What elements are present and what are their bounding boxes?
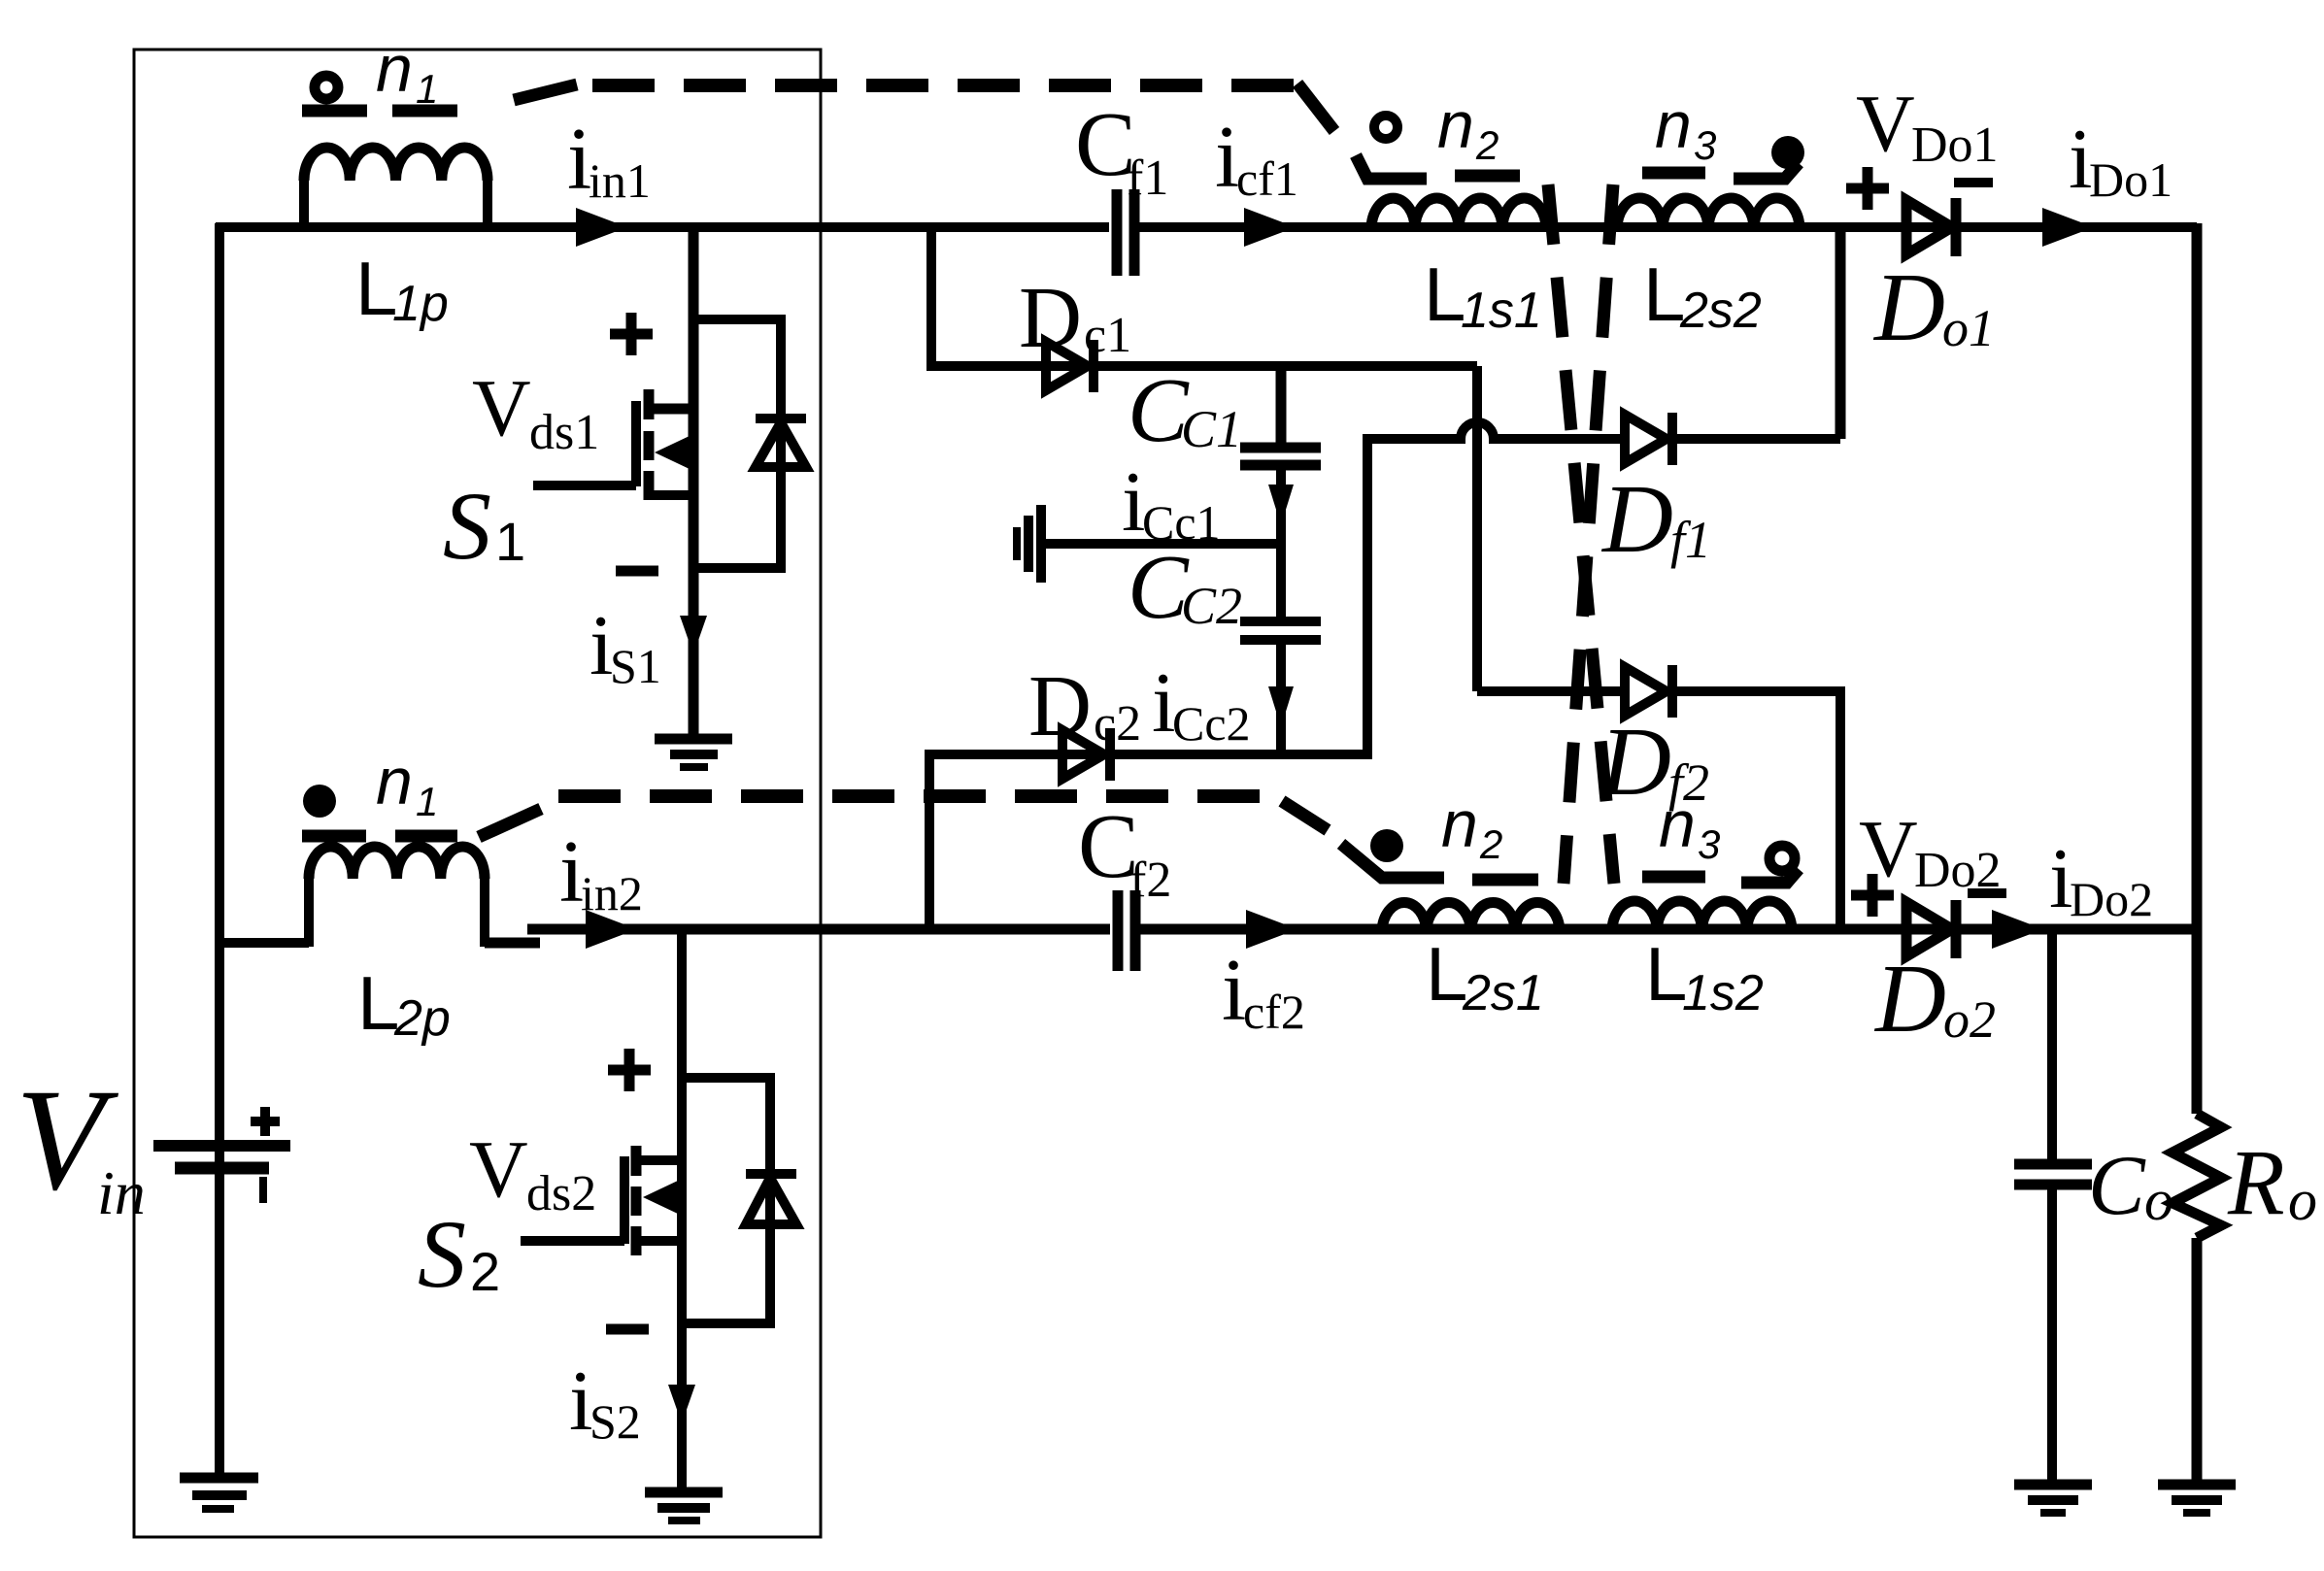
svg-text:Do1: Do1 bbox=[2089, 152, 2172, 207]
wire: rail to L2p left terminal bbox=[219, 938, 309, 948]
wire: Df1 cathode to return vertical bbox=[1672, 434, 1840, 444]
current arrow i_Cc1 bbox=[1268, 485, 1294, 525]
dashed polarity lead n2 bottom bbox=[1341, 844, 1538, 880]
label Cf2 bbox=[1078, 796, 1171, 908]
label n3 bottom bbox=[1659, 787, 1720, 867]
label Df2 bbox=[1599, 707, 1709, 816]
svg-text:S: S bbox=[443, 472, 491, 580]
dashed polarity lead n3 top with filled dot bbox=[1642, 136, 1804, 179]
label CC2 bbox=[1128, 537, 1242, 638]
dashed coupling line bottom (to n2 bottom) bbox=[558, 796, 1328, 830]
label i_Do2 bbox=[2049, 832, 2153, 926]
label i_cf2 bbox=[1222, 941, 1305, 1039]
label n1 bottom bbox=[376, 745, 438, 824]
diode Dc1 bbox=[1046, 340, 1094, 392]
current arrow i_Cc2 bbox=[1268, 686, 1294, 727]
svg-text:V: V bbox=[1856, 79, 1915, 169]
svg-text:c1: c1 bbox=[1084, 308, 1131, 363]
svg-text:C1: C1 bbox=[1181, 400, 1242, 458]
svg-text:1: 1 bbox=[495, 511, 525, 572]
capacitor Cf2 bbox=[1118, 890, 1135, 971]
svg-text:Cc2: Cc2 bbox=[1172, 696, 1251, 751]
label Df1 bbox=[1600, 464, 1711, 573]
svg-text:2s1: 2s1 bbox=[1462, 965, 1544, 1021]
capacitor CC1 bbox=[1240, 448, 1321, 465]
label CC1 bbox=[1128, 360, 1242, 461]
input cell boundary box bbox=[134, 50, 821, 1537]
label Dc2 bbox=[1028, 658, 1141, 754]
svg-text:1: 1 bbox=[416, 779, 438, 824]
wire: Df2 anode wire bbox=[1477, 686, 1625, 696]
svg-text:ds1: ds1 bbox=[529, 405, 599, 460]
svg-text:L: L bbox=[1424, 251, 1465, 337]
label S2 bbox=[418, 1200, 500, 1308]
dashed polarity line n1 top bbox=[302, 84, 577, 111]
label n2 top bbox=[1437, 88, 1499, 168]
label Dc1 bbox=[1019, 270, 1131, 366]
winding dot n1 bottom (filled) bbox=[303, 785, 336, 818]
inductor L2s1 bbox=[1382, 902, 1560, 931]
svg-text:2s2: 2s2 bbox=[1679, 283, 1762, 339]
ground at Ro bbox=[2158, 1485, 2236, 1513]
svg-text:L: L bbox=[357, 960, 399, 1046]
label V_Do1 bbox=[1856, 79, 1999, 173]
label Cf1 bbox=[1075, 94, 1168, 206]
svg-text:n: n bbox=[376, 745, 413, 819]
diode Dc2 bbox=[1062, 728, 1110, 781]
svg-text:L: L bbox=[1426, 931, 1467, 1017]
wire: Dc1 corner down to Df2 wire bbox=[1472, 366, 1482, 691]
label L1s2 bbox=[1645, 931, 1764, 1021]
current arrow i_cf2 bbox=[1246, 910, 1297, 949]
winding dot n2 bottom (filled) bbox=[1370, 829, 1403, 862]
label L1p bbox=[355, 246, 449, 332]
svg-text:n: n bbox=[376, 32, 413, 106]
plus sign Vds2 bbox=[608, 1049, 651, 1091]
body diode of S1 bbox=[693, 319, 806, 568]
svg-text:in: in bbox=[97, 1158, 146, 1227]
svg-text:o: o bbox=[2288, 1168, 2317, 1232]
ground at S2 source bbox=[645, 1492, 723, 1521]
wire: L2p to main bottom wire bbox=[485, 938, 540, 949]
svg-text:o: o bbox=[2144, 1168, 2173, 1232]
transformer core dashed line B bbox=[1564, 184, 1613, 884]
svg-text:L: L bbox=[355, 246, 397, 331]
label Vds1 bbox=[472, 363, 599, 460]
wire: right output rail bbox=[2192, 223, 2203, 1114]
label i_cf1 bbox=[1215, 108, 1298, 206]
svg-text:R: R bbox=[2227, 1130, 2285, 1234]
svg-text:S: S bbox=[418, 1200, 466, 1308]
dashed polarity lead n2 top bbox=[1356, 155, 1520, 179]
winding dot n3 bottom (open circle) bbox=[1769, 846, 1795, 871]
dashed polarity line n1 bottom bbox=[302, 809, 541, 837]
svg-text:cf2: cf2 bbox=[1243, 985, 1305, 1039]
label i_S1 bbox=[589, 599, 661, 693]
capacitor Cf1 bbox=[1117, 189, 1134, 276]
capacitor Co bbox=[2014, 1164, 2092, 1185]
inductor L2p bbox=[309, 847, 485, 947]
label L1s1 bbox=[1424, 251, 1542, 339]
minus sign V_Do1 bbox=[1954, 178, 1993, 187]
resistor Ro bbox=[2172, 1114, 2221, 1238]
minus sign Vds2 bbox=[606, 1324, 649, 1335]
inductor L1s1 bbox=[1371, 198, 1546, 229]
MOSFET S1 bbox=[533, 227, 693, 734]
wire: top main wire left of Cf1 bbox=[216, 222, 1109, 232]
svg-text:n: n bbox=[1437, 88, 1474, 162]
wire: top main wire right of Cf1 to output corner bbox=[1135, 222, 2197, 232]
svg-text:C: C bbox=[2088, 1139, 2146, 1233]
svg-text:L: L bbox=[1645, 931, 1687, 1017]
dashed polarity lead n3 bottom bbox=[1642, 869, 1799, 883]
inductor L1p bbox=[304, 148, 488, 231]
svg-text:S2: S2 bbox=[589, 1394, 641, 1449]
wire: Df1 return vertical to top wire bbox=[1836, 227, 1846, 439]
plus sign V_Do1 bbox=[1846, 167, 1889, 210]
current arrow i_Do1 bbox=[2042, 208, 2094, 247]
MOSFET S2 bbox=[521, 929, 682, 1487]
transformer core dashed line A bbox=[1548, 184, 1614, 884]
svg-text:2p: 2p bbox=[393, 990, 451, 1047]
label L2s1 bbox=[1426, 931, 1544, 1021]
svg-text:C2: C2 bbox=[1181, 577, 1242, 635]
wire: branch from top wire down to Dc1 bbox=[931, 227, 1477, 366]
label L2s2 bbox=[1643, 251, 1762, 339]
diode Df2 bbox=[1625, 665, 1672, 718]
plus sign Vds1 bbox=[610, 313, 653, 355]
inductor L2s2 bbox=[1617, 198, 1800, 229]
svg-text:n: n bbox=[1659, 787, 1696, 861]
label i_S2 bbox=[569, 1354, 641, 1449]
svg-text:D: D bbox=[1873, 944, 1946, 1053]
wire: bottom main wire right of Cf2 bbox=[1135, 924, 2197, 935]
capacitor CC2 bbox=[1240, 621, 1321, 640]
label n2 bottom bbox=[1441, 787, 1502, 867]
minus sign V_Do2 bbox=[1968, 888, 2006, 898]
label Do1 bbox=[1872, 252, 1995, 361]
body diode of S2 bbox=[682, 1078, 796, 1323]
svg-text:Do2: Do2 bbox=[2070, 872, 2153, 926]
plus sign battery bbox=[251, 1107, 280, 1136]
current arrow i_cf1 bbox=[1244, 208, 1296, 247]
svg-text:1p: 1p bbox=[392, 276, 449, 332]
svg-text:2: 2 bbox=[1479, 821, 1502, 867]
svg-text:f2: f2 bbox=[1129, 852, 1171, 908]
label Vds2 bbox=[469, 1124, 596, 1221]
diode Df1 bbox=[1625, 413, 1672, 465]
svg-text:n: n bbox=[1655, 88, 1692, 162]
svg-text:2: 2 bbox=[1475, 122, 1499, 168]
current arrow i_S2 bbox=[668, 1385, 695, 1423]
minus sign Vds1 bbox=[616, 566, 658, 577]
wire: rail below Ro bbox=[2192, 1238, 2203, 1480]
svg-text:3: 3 bbox=[1698, 821, 1720, 867]
svg-text:o1: o1 bbox=[1942, 299, 1995, 357]
battery Vin bbox=[153, 1146, 290, 1203]
label n3 top bbox=[1655, 88, 1716, 168]
svg-text:o2: o2 bbox=[1943, 990, 1996, 1049]
svg-text:D: D bbox=[1028, 658, 1092, 754]
current arrow i_in1 bbox=[576, 208, 627, 247]
svg-text:V: V bbox=[472, 363, 531, 453]
wire: bottom main wire left of Cf2 bbox=[527, 924, 1110, 935]
svg-text:f1: f1 bbox=[1127, 150, 1168, 206]
svg-text:V: V bbox=[469, 1124, 528, 1215]
svg-text:f1: f1 bbox=[1670, 511, 1711, 569]
wire: Dc2 anode branch from bottom wire bbox=[929, 754, 1281, 929]
winding dot n2 top (open circle) bbox=[1374, 116, 1398, 139]
inductor L1s2 bbox=[1612, 901, 1792, 931]
svg-text:D: D bbox=[1872, 252, 1945, 361]
wire: Co branch bbox=[2047, 929, 2057, 1480]
wire: clamp node to Df1 with crossover hump bbox=[1281, 422, 1625, 754]
svg-text:S1: S1 bbox=[610, 639, 661, 693]
label S1 bbox=[443, 472, 525, 580]
svg-text:cf1: cf1 bbox=[1236, 151, 1298, 206]
label V_Do2 bbox=[1859, 804, 2002, 898]
plus sign V_Do2 bbox=[1851, 874, 1894, 917]
diode Do2 bbox=[1906, 900, 1956, 958]
label L2p bbox=[357, 960, 451, 1047]
svg-text:n: n bbox=[1441, 787, 1478, 861]
svg-text:Do1: Do1 bbox=[1911, 117, 1999, 173]
wire: left input rail bbox=[215, 223, 224, 1473]
label Co bbox=[2088, 1139, 2173, 1233]
svg-text:D: D bbox=[1600, 464, 1673, 573]
label i_Cc2 bbox=[1152, 656, 1251, 751]
current arrow i_S1 bbox=[680, 616, 707, 654]
ground at battery bbox=[180, 1478, 258, 1509]
svg-text:c2: c2 bbox=[1094, 696, 1141, 752]
label Do2 bbox=[1873, 944, 1996, 1053]
ground (mid clamp) bbox=[1017, 505, 1281, 583]
current arrow i_Do2 bbox=[1992, 910, 2043, 949]
label i_in1 bbox=[567, 110, 651, 208]
ground at Co bbox=[2014, 1485, 2092, 1513]
ground at S1 source bbox=[655, 739, 732, 767]
label n1 top bbox=[376, 32, 438, 112]
label Ro bbox=[2227, 1130, 2317, 1234]
label i_Do1 bbox=[2069, 113, 2172, 207]
svg-text:1s2: 1s2 bbox=[1682, 965, 1764, 1021]
diode Do1 bbox=[1906, 198, 1956, 256]
current arrow i_in2 bbox=[586, 910, 637, 949]
winding dot n1 top (open circle) bbox=[315, 76, 338, 99]
label i_in2 bbox=[559, 822, 643, 920]
svg-text:in2: in2 bbox=[581, 866, 643, 920]
wire: Df2 cathode down to bottom wire bbox=[1672, 691, 1840, 929]
svg-text:D: D bbox=[1019, 270, 1082, 366]
label i_Cc1 bbox=[1122, 455, 1221, 550]
svg-text:3: 3 bbox=[1694, 122, 1716, 168]
svg-text:L: L bbox=[1643, 251, 1685, 337]
svg-text:in1: in1 bbox=[589, 153, 651, 208]
svg-text:2: 2 bbox=[470, 1241, 500, 1302]
label Vin bbox=[16, 1059, 146, 1227]
dashed coupling line top (to n2) bbox=[592, 84, 1334, 131]
wire: clamp capacitor chain bbox=[1276, 366, 1287, 754]
svg-text:ds2: ds2 bbox=[526, 1166, 596, 1221]
svg-text:1s1: 1s1 bbox=[1461, 283, 1542, 339]
